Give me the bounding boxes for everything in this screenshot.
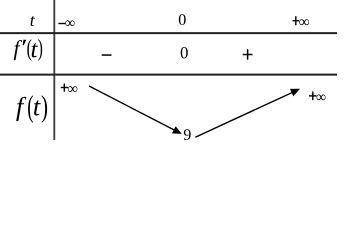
row 2 header f'(t): letter f (14, 40, 22, 60)
horizontal divider under t row (0, 32, 337, 34)
vertical separator line between header column and values (53, 0, 55, 140)
row 1 upper bound: plus sign vertical bar (295, 16, 296, 25)
row 2 value: 0 (181, 47, 188, 58)
increasing arrow head (290, 89, 300, 97)
row 2 header f'(t): opening parenthesis (27, 39, 31, 61)
row 1 lower bound: minus sign of minus infinity (58, 23, 65, 24)
row 3 upper-right limit: plus sign horizontal bar (309, 95, 317, 96)
decreasing arrow shaft (89, 86, 174, 130)
row 2 sign: plus vertical bar (247, 49, 249, 60)
row 3 upper-left limit: infinity glyph (68, 86, 78, 92)
decreasing arrow head (172, 126, 182, 134)
row 2 sign: plus horizontal bar (243, 54, 253, 56)
row 2 header f'(t): closing parenthesis (38, 39, 42, 61)
horizontal divider under f'(t) row (0, 74, 337, 76)
row 2 header f'(t): letter t (32, 43, 38, 57)
row 3 header f(t): closing parenthesis (42, 95, 47, 123)
row 1 upper bound: plus sign horizontal bar (293, 20, 300, 21)
row 2 header f'(t): prime mark (23, 40, 27, 45)
row 3 header f(t): letter f (16, 97, 26, 121)
row 2 sign: minus (102, 54, 112, 56)
row 1 lower bound: infinity glyph of minus infinity (65, 20, 74, 26)
row 1 upper bound: infinity glyph of plus infinity (299, 19, 309, 25)
minimum value 9 (184, 129, 191, 140)
row 3 upper-left limit: plus sign horizontal bar (61, 87, 68, 88)
row 3 upper-right limit: infinity glyph (317, 94, 326, 100)
row 3 upper-right limit: plus sign vertical bar (312, 92, 313, 101)
increasing arrow shaft (195, 93, 292, 138)
row 3 upper-left limit: plus sign vertical bar (64, 84, 65, 92)
row 1 value: 0 (179, 14, 186, 25)
row 1 header: variable t (31, 16, 35, 26)
row 3 header f(t): letter t (34, 100, 41, 115)
row 3 header f(t): opening parenthesis (28, 95, 33, 123)
